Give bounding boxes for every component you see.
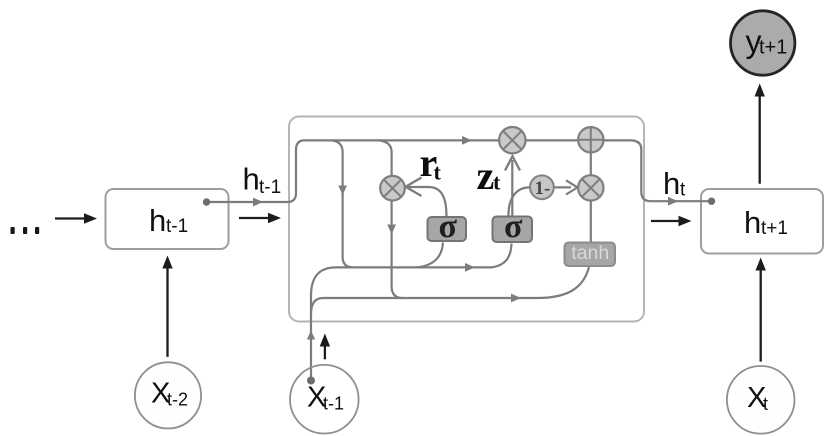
svg-text:z: z — [477, 153, 495, 198]
open arrowhead up to z gate — [505, 156, 520, 170]
wire curve up into sigma r — [417, 243, 443, 268]
svg-text:σ: σ — [439, 208, 458, 245]
svg-text:t: t — [434, 160, 442, 185]
label h_t-1 (on wire) — [243, 162, 282, 199]
wire sigma r output to r gate — [408, 187, 447, 217]
wire lower rail to tanh — [334, 267, 589, 298]
gate circle multiply right (x) — [578, 175, 603, 200]
svg-text:t-1: t-1 — [323, 393, 344, 413]
svg-text:tanh: tanh — [571, 242, 609, 264]
wire arrowhead up on riser — [307, 331, 315, 340]
wire arrowhead down on branch 3 — [387, 225, 396, 235]
wire arrowhead on top rail — [462, 136, 472, 145]
junction dot at h_t+1 box input — [708, 198, 715, 205]
black arrow X_t-1 short — [320, 334, 330, 360]
svg-text:t: t — [680, 180, 686, 201]
sigma box r — [428, 208, 467, 245]
svg-text:σ: σ — [504, 208, 523, 245]
state box h_t+1 — [701, 189, 823, 254]
wire arrowhead on lower rail — [511, 294, 521, 303]
gate circle multiply r (x) — [380, 176, 405, 201]
gate circle plus — [578, 127, 603, 152]
wire arrowhead down on branch 2 — [338, 186, 347, 196]
wire 1- to multiply gate — [554, 186, 571, 188]
input circle X_t-1 — [290, 365, 359, 434]
wire branch to 1- node — [508, 187, 529, 216]
junction dot at X_t-1 output — [307, 377, 315, 385]
svg-text:h: h — [149, 203, 166, 238]
open arrowhead into r gate — [406, 178, 422, 197]
label h_t (on wire) — [663, 166, 686, 201]
wire main h path: entry from h_t-1 box through cell top to exit — [207, 140, 710, 202]
wire arrowhead on upper rail — [465, 263, 475, 272]
tanh box — [565, 242, 616, 266]
black arrow ... to h_t-1 box — [55, 213, 97, 223]
input circle X_t-2 — [135, 362, 201, 428]
svg-text:h: h — [744, 205, 761, 240]
label z_t — [477, 153, 502, 198]
svg-text:t-2: t-2 — [167, 390, 188, 410]
wire branch down to gates (vertical 2) — [332, 140, 353, 267]
svg-text:t+1: t+1 — [761, 218, 788, 239]
junction dot at h_t-1 box output — [203, 198, 210, 205]
wire branch down through r gate (vertical 3) — [379, 140, 403, 298]
state box h_t-1 — [106, 189, 229, 249]
black arrow h_t-1 box to cell — [239, 213, 281, 223]
input circle X_t — [727, 366, 795, 434]
svg-text:1-: 1- — [535, 178, 551, 199]
wire x_t-1 riser into cell — [311, 267, 336, 380]
svg-text:t-1: t-1 — [259, 177, 281, 198]
sigma box z — [493, 208, 533, 245]
node 1- circle — [530, 175, 554, 199]
label r_t — [420, 140, 442, 185]
svg-text:t: t — [493, 170, 501, 195]
node ... (ellipsis) — [11, 227, 40, 234]
svg-text:t: t — [763, 394, 768, 414]
wire x_t-1 riser lower branch — [311, 298, 334, 314]
wire sigma z output up to z gate — [511, 160, 513, 216]
open arrowhead into multiply gate — [566, 180, 578, 194]
black arrow cell to h_t+1 box — [651, 216, 692, 226]
wire upper gate feed rail — [336, 244, 512, 268]
wire arrowhead to h_t+1 — [668, 197, 678, 206]
svg-text:t+1: t+1 — [759, 37, 787, 59]
svg-text:t-1: t-1 — [166, 216, 188, 237]
gate circle multiply z top (x) — [499, 127, 525, 153]
svg-text:h: h — [243, 162, 260, 197]
black arrow h_t+1 to y_t+1 — [755, 84, 765, 184]
GRU cell boundary — [289, 117, 644, 322]
output circle y_t+1 — [731, 11, 795, 75]
black arrow X_t-2 to h_t-1 box — [162, 256, 172, 357]
svg-text:h: h — [663, 166, 680, 201]
wire arrowhead into cell — [253, 198, 263, 207]
black arrow X_t to h_t+1 box — [756, 258, 766, 362]
wire vertical plus-multiply-tanh — [590, 140, 592, 242]
